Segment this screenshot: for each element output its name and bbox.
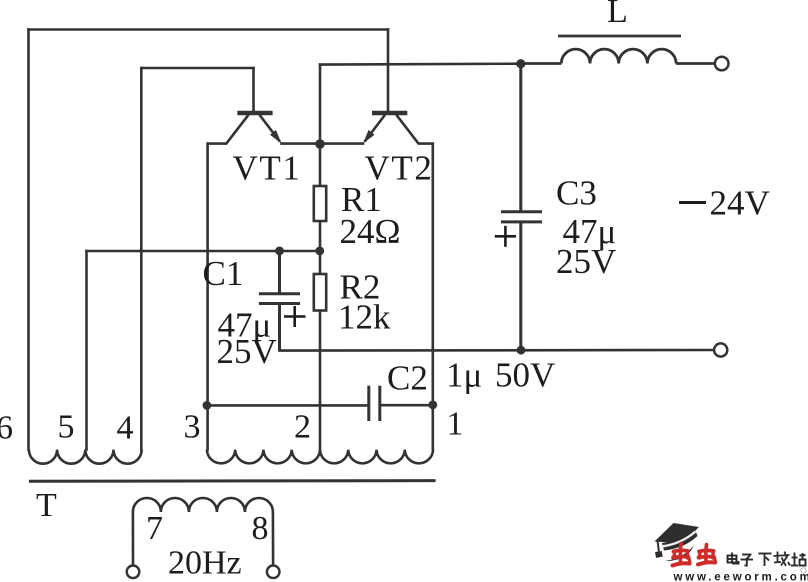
C1 plus sign <box>284 306 306 327</box>
svg-text:50V: 50V <box>495 356 555 395</box>
svg-text:25V: 25V <box>556 242 616 281</box>
capacitor C3 <box>501 64 542 351</box>
wire R2 top lead <box>319 251 322 274</box>
wire bottom output rail <box>280 349 715 352</box>
terminal winding 8 <box>267 566 280 579</box>
transistor VT1 <box>208 113 320 144</box>
logo cap swoosh <box>665 546 694 561</box>
svg-text:L: L <box>607 0 628 30</box>
junction node at VT1/VT2 emitters <box>315 139 325 149</box>
logo character zai <box>774 552 791 567</box>
logo tassel cord <box>658 541 660 553</box>
svg-text:24Ω: 24Ω <box>340 212 401 251</box>
resistor R1 <box>314 186 326 221</box>
logo graduation cap board <box>655 523 700 544</box>
transformer feedback winding 7-8 <box>133 498 273 512</box>
terminal top right <box>715 57 729 71</box>
C3 plus sign <box>495 226 516 247</box>
svg-text:3: 3 <box>184 409 201 446</box>
wire horizontal to VT1 base <box>141 67 253 70</box>
capacitor C1 <box>259 251 300 351</box>
transformer core <box>29 479 436 483</box>
terminal winding 7 <box>127 566 140 579</box>
inductor L <box>521 36 715 64</box>
resistor R2 <box>314 274 326 311</box>
transformer secondary winding 3-2-1 <box>207 450 433 464</box>
transformer primary winding 6-5-4 <box>29 450 142 464</box>
junction node R1/R2 <box>315 247 324 256</box>
transistor VT2 <box>320 113 433 144</box>
junction node C1 top <box>275 247 284 256</box>
wire VT1 collector vertical to pin 3 <box>206 144 209 450</box>
svg-text:4: 4 <box>117 410 134 447</box>
wire R1 bottom lead to node <box>319 221 322 251</box>
wire winding7 left lead <box>132 512 135 565</box>
wire R1 top lead <box>319 144 322 186</box>
svg-text:C2: C2 <box>387 359 428 398</box>
wire top rail <box>29 28 389 31</box>
label -24V minus stroke <box>679 201 706 204</box>
svg-text:www.eeworm.com: www.eeworm.com <box>673 572 808 582</box>
wire transformer pin 5 lead <box>85 251 88 450</box>
junction node top right <box>516 59 525 68</box>
svg-text:6: 6 <box>0 410 13 447</box>
svg-text:5: 5 <box>58 409 75 446</box>
svg-text:VT1: VT1 <box>233 149 302 188</box>
wire transformer pin 4 lead <box>140 68 143 450</box>
wire VT1 base lead <box>252 68 255 112</box>
logo registered mark <box>801 568 806 573</box>
logo character dian <box>728 553 739 564</box>
svg-text:8: 8 <box>252 510 269 547</box>
wire emitter node to C3 node <box>320 62 521 65</box>
junction node pin 3 <box>203 401 212 410</box>
wire VT2 base lead <box>387 30 390 112</box>
wire winding8 right lead <box>272 512 275 565</box>
logo character zhan <box>791 553 806 566</box>
logo chong character 2 <box>698 545 716 565</box>
svg-text:25V: 25V <box>217 332 277 371</box>
wire emitter node vertical <box>319 65 322 144</box>
wire R2 lower lead to pin 2 <box>319 311 322 450</box>
svg-text:C3: C3 <box>556 174 597 213</box>
capacitor C2 <box>369 386 380 421</box>
junction node pin 1 <box>428 401 437 410</box>
logo chong character 1 <box>673 544 691 566</box>
terminal bottom right <box>714 343 727 356</box>
logo tassel knob <box>655 551 663 558</box>
svg-text:T: T <box>36 487 57 524</box>
logo character xia <box>759 554 772 567</box>
svg-text:1: 1 <box>447 406 464 443</box>
logo cap white stripe <box>662 532 696 547</box>
logo character zi <box>741 555 754 566</box>
svg-text:7: 7 <box>146 510 163 547</box>
wire C1 top rail <box>87 250 320 253</box>
svg-text:20Hz: 20Hz <box>168 545 242 582</box>
svg-text:C1: C1 <box>203 254 244 293</box>
wire left vertical from top rail to transformer pin 6 <box>27 30 30 450</box>
wire C2 right to pin1 node <box>380 404 433 407</box>
logo cap crown <box>662 530 698 551</box>
wire pin3 to C2 left <box>207 404 368 407</box>
wire VT2 collector vertical to pin 1 <box>431 144 434 450</box>
svg-text:12k: 12k <box>338 298 391 337</box>
svg-text:24V: 24V <box>710 184 770 223</box>
svg-text:2: 2 <box>294 409 311 446</box>
svg-text:1μ: 1μ <box>446 356 482 395</box>
junction node bottom right <box>517 346 526 355</box>
